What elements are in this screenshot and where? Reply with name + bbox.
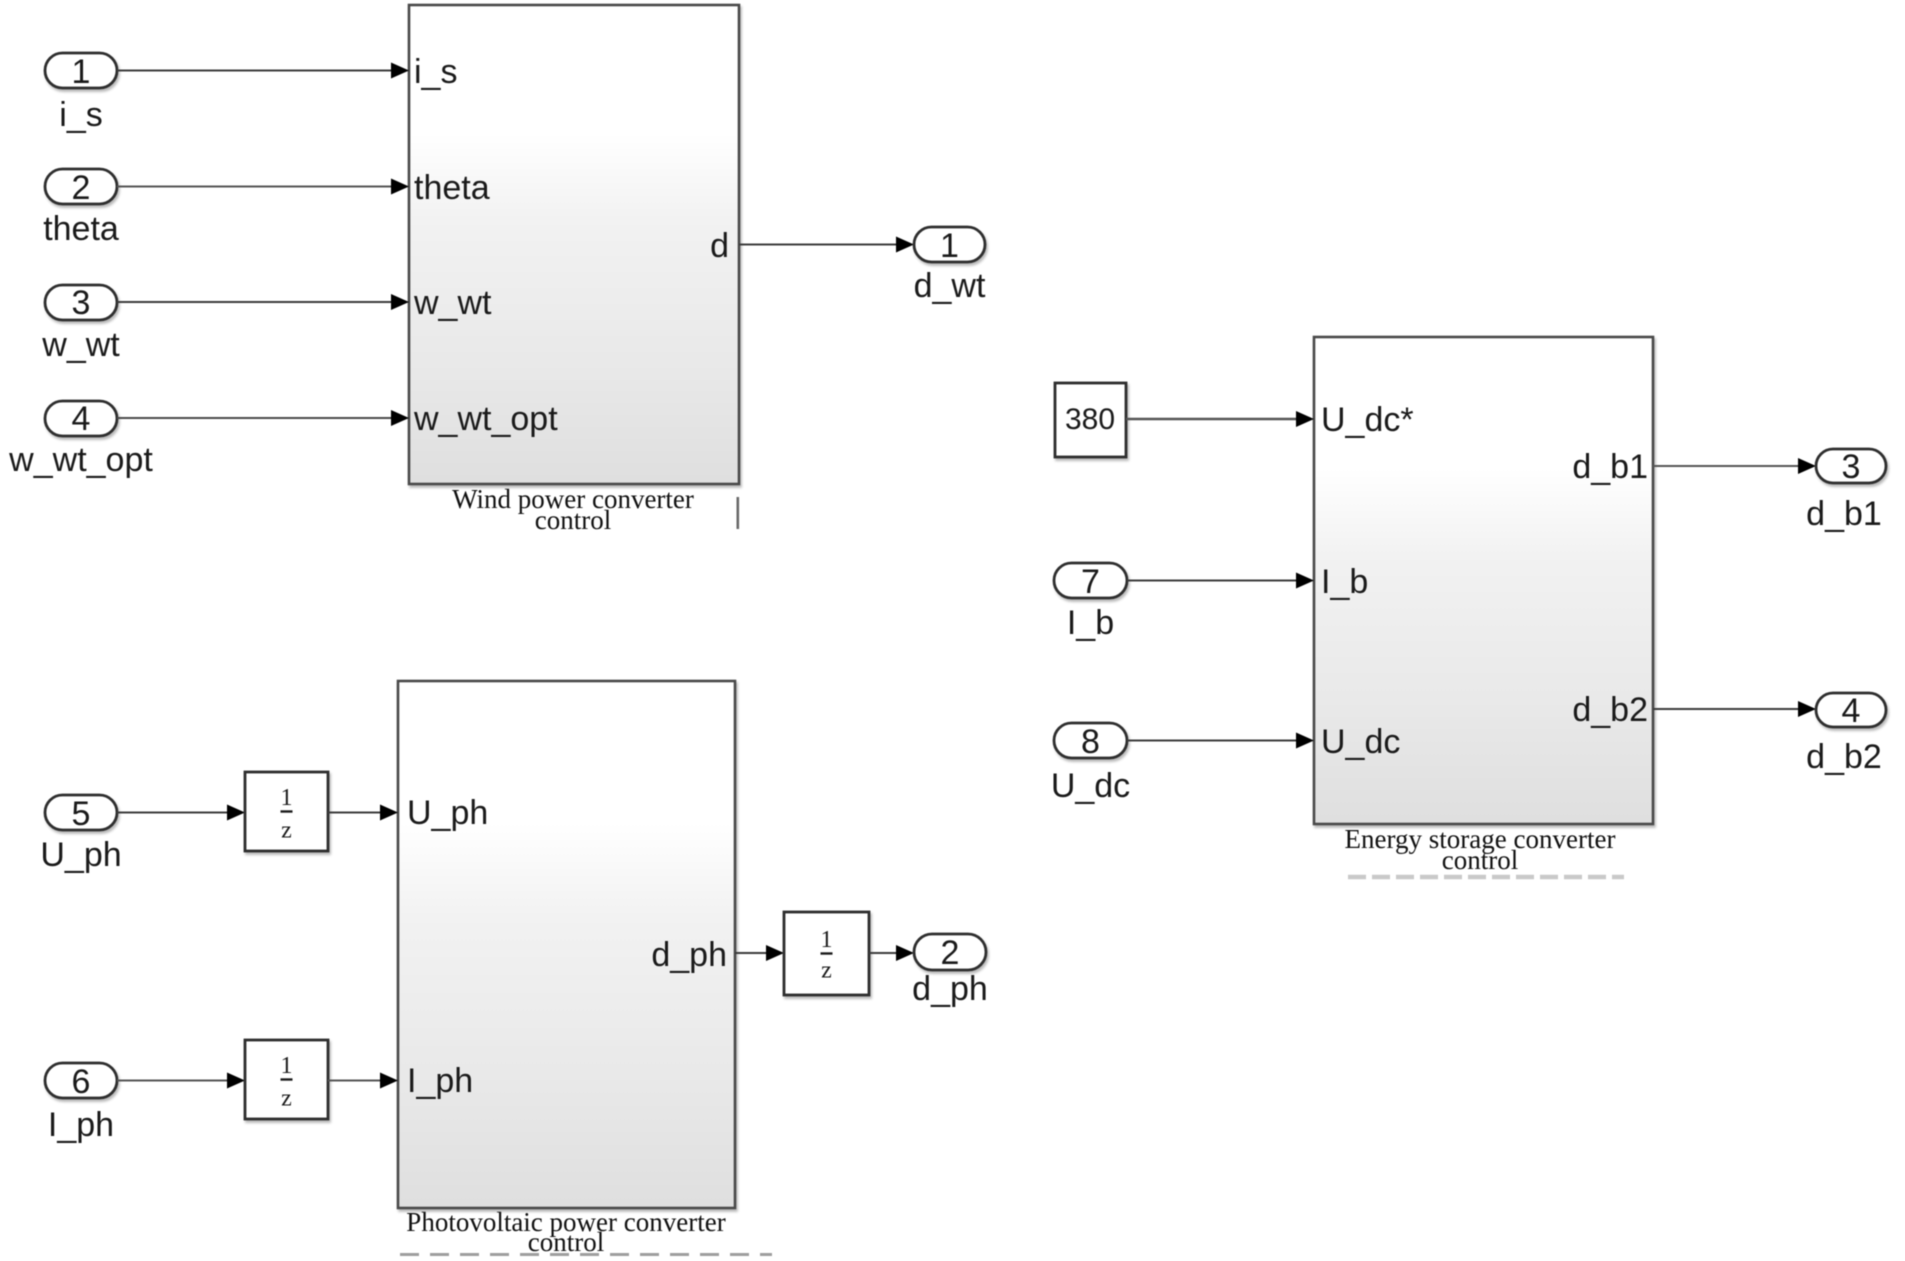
svg-text:1: 1 xyxy=(72,53,91,91)
wire Z2 to U2.I_ph xyxy=(328,1073,398,1089)
inport 7 I_b xyxy=(1054,563,1127,598)
svg-text:1: 1 xyxy=(940,227,959,265)
svg-text:380: 380 xyxy=(1065,403,1115,436)
wire inport5 to Z1 xyxy=(117,805,245,821)
svg-text:7: 7 xyxy=(1081,563,1100,601)
svg-text:d_b1: d_b1 xyxy=(1572,448,1648,486)
wire inport4 to U1.w_wt_opt xyxy=(117,410,409,426)
svg-text:z: z xyxy=(281,1086,292,1112)
svg-text:1: 1 xyxy=(821,927,833,953)
unit delay Z3 (1/z) xyxy=(784,912,869,995)
svg-text:4: 4 xyxy=(1842,692,1861,730)
svg-text:1: 1 xyxy=(281,785,293,811)
wire inport1 to U1.i_s xyxy=(117,63,409,79)
svg-text:4: 4 xyxy=(72,400,91,438)
svg-text:U_ph: U_ph xyxy=(40,836,121,874)
subsystem U2 Photovoltaic power converter control xyxy=(398,681,735,1208)
faint artifact dashes below U2 caption xyxy=(400,1253,772,1256)
inport 3 w_wt xyxy=(45,285,117,320)
svg-text:1: 1 xyxy=(281,1053,293,1079)
wire inport6 to Z2 xyxy=(117,1073,245,1089)
unit delay Z2 (1/z) xyxy=(245,1040,328,1119)
svg-text:d_wt: d_wt xyxy=(914,267,986,305)
subsystem U1 Wind power converter control xyxy=(409,5,739,484)
inport 4 w_wt_opt xyxy=(45,401,117,436)
inport 8 U_dc xyxy=(1054,723,1127,758)
svg-text:8: 8 xyxy=(1081,723,1100,761)
svg-text:d_ph: d_ph xyxy=(912,970,988,1008)
svg-text:I_b: I_b xyxy=(1067,604,1114,642)
wire K1 to U3.U_dc* xyxy=(1126,411,1314,427)
unit delay Z1 (1/z) xyxy=(245,772,328,851)
inport 5 U_ph xyxy=(45,795,117,830)
svg-text:I_ph: I_ph xyxy=(48,1106,114,1144)
wire inport8 to U3.U_dc xyxy=(1127,733,1314,749)
svg-text:control: control xyxy=(1442,845,1518,875)
outport 4 d_b2 xyxy=(1816,693,1886,727)
svg-text:d_b1: d_b1 xyxy=(1806,495,1882,533)
svg-text:6: 6 xyxy=(72,1063,91,1101)
wire U3.d_b2 to outport d_b2 xyxy=(1653,701,1816,717)
svg-text:z: z xyxy=(281,818,292,844)
svg-text:2: 2 xyxy=(72,169,91,207)
svg-text:3: 3 xyxy=(1842,448,1861,486)
inport 6 I_ph xyxy=(45,1063,117,1098)
svg-text:w_wt_opt: w_wt_opt xyxy=(8,441,153,479)
svg-text:d_b2: d_b2 xyxy=(1806,738,1882,776)
svg-text:U_dc*: U_dc* xyxy=(1321,401,1414,439)
wire U2.d_ph to Z3 xyxy=(735,945,784,961)
svg-text:i_s: i_s xyxy=(59,96,102,134)
wire U3.d_b1 to outport d_b1 xyxy=(1653,458,1816,474)
wire Z1 to U2.U_ph xyxy=(328,805,398,821)
subsystem U3 Energy storage converter control xyxy=(1314,337,1653,824)
cursor artifact right of U1 caption xyxy=(737,497,740,529)
svg-text:d_b2: d_b2 xyxy=(1572,691,1648,729)
svg-text:U_dc: U_dc xyxy=(1321,723,1400,761)
inport 2 theta xyxy=(45,169,117,204)
svg-text:theta: theta xyxy=(43,210,119,248)
outport 1 d_wt xyxy=(914,227,985,262)
svg-text:U_ph: U_ph xyxy=(407,794,488,832)
wire inport2 to U1.theta xyxy=(117,179,409,195)
svg-text:w_wt_opt: w_wt_opt xyxy=(413,400,558,438)
svg-text:w_wt: w_wt xyxy=(41,326,120,364)
constant K1 value 380 xyxy=(1055,383,1126,457)
wire Z3 to outport d_ph xyxy=(869,945,914,961)
wire U1.d to outport d_wt xyxy=(739,237,914,253)
svg-text:5: 5 xyxy=(72,795,91,833)
svg-text:U_dc: U_dc xyxy=(1051,767,1130,805)
svg-text:control: control xyxy=(535,505,611,535)
wire inport3 to U1.w_wt xyxy=(117,294,409,310)
inport 1 i_s xyxy=(45,53,117,88)
svg-text:control: control xyxy=(528,1227,604,1257)
svg-text:2: 2 xyxy=(941,934,960,972)
outport 3 d_b1 xyxy=(1816,449,1886,483)
svg-text:I_ph: I_ph xyxy=(407,1062,473,1100)
outport 2 d_ph xyxy=(914,934,986,970)
svg-text:w_wt: w_wt xyxy=(413,284,492,322)
svg-text:theta: theta xyxy=(414,169,490,207)
svg-text:3: 3 xyxy=(72,284,91,322)
svg-text:I_b: I_b xyxy=(1321,563,1368,601)
svg-text:z: z xyxy=(821,958,832,984)
svg-text:d_ph: d_ph xyxy=(651,936,727,974)
wire inport7 to U3.I_b xyxy=(1127,573,1314,589)
svg-text:i_s: i_s xyxy=(414,53,457,91)
svg-text:d: d xyxy=(710,227,729,265)
faint artifact dashes below U3 caption xyxy=(1348,875,1624,880)
